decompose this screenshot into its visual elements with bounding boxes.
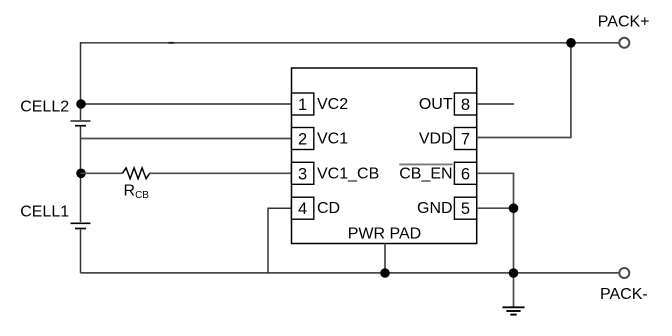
ground symbol: [503, 307, 525, 314]
svg-text:CD: CD: [317, 200, 340, 217]
junction node resistor RCB: [76, 169, 86, 179]
svg-text:CELL2: CELL2: [20, 99, 69, 116]
wire PWR PAD to bottom rail: [384, 244, 386, 274]
wire pin6 CB_EN elbow down: [477, 173, 514, 307]
wire pin1 VC2 to CELL2 node: [81, 103, 292, 105]
battery CELL1 short plate: [75, 228, 86, 230]
terminal PACK+: [619, 38, 629, 48]
wire top rail from left rail to PACK+: [81, 42, 619, 44]
wire bottom rail from left rail to PACK-: [81, 272, 619, 274]
svg-text:VC1: VC1: [317, 131, 348, 148]
svg-text:2: 2: [298, 131, 307, 149]
pin 2 box: [292, 128, 314, 150]
svg-text:6: 6: [461, 165, 470, 183]
wire pin4 CD down to bottom rail: [268, 208, 292, 273]
svg-text:VC2: VC2: [317, 96, 348, 113]
svg-text:PACK-: PACK-: [600, 286, 648, 303]
svg-text:VDD: VDD: [419, 131, 453, 148]
resistor RCB zigzag: [123, 168, 150, 179]
junction node VDD / PACK+: [566, 38, 576, 48]
svg-text:CB_EN: CB_EN: [399, 165, 452, 182]
wire left rail lower segment (CELL1 to bottom rail): [80, 230, 82, 274]
pin 3 box: [292, 162, 314, 184]
svg-text:VC1_CB: VC1_CB: [317, 165, 379, 182]
svg-text:OUT: OUT: [419, 96, 453, 113]
pin 5 box: [454, 197, 476, 219]
svg-text:4: 4: [298, 200, 307, 218]
wire pin2 VC1 to mid-cell rail: [81, 138, 292, 140]
pin 8 box: [454, 93, 476, 115]
wire RCB left lead: [81, 172, 123, 174]
wire pin8 OUT stub: [477, 103, 514, 105]
svg-text:PWR PAD: PWR PAD: [348, 226, 421, 243]
svg-text:5: 5: [461, 200, 470, 218]
terminal PACK-: [619, 268, 629, 278]
pin 1 box: [292, 93, 314, 115]
wire RCB right lead to pin 3: [150, 172, 292, 174]
battery CELL1 long plate: [71, 222, 91, 224]
wire left rail middle segment (CELL2 to CELL1): [80, 127, 82, 223]
overline bar of CB_EN: [399, 163, 452, 165]
pin 6 box: [454, 162, 476, 184]
junction node PWR PAD / bottom rail: [380, 268, 390, 278]
wire pin5 GND to vertical: [477, 207, 514, 209]
svg-text:GND: GND: [417, 200, 453, 217]
svg-text:PACK+: PACK+: [598, 14, 650, 31]
junction node bottom rail / ground: [509, 268, 519, 278]
wire pin7 VDD to PACK+ rail: [477, 43, 571, 138]
svg-text:CELL1: CELL1: [20, 204, 69, 221]
svg-text:1: 1: [298, 96, 307, 114]
wire top rail overlap joint: [169, 42, 175, 44]
pin 4 box: [292, 197, 314, 219]
svg-text:3: 3: [298, 165, 307, 183]
svg-text:8: 8: [461, 96, 470, 114]
battery CELL2 short plate: [75, 125, 86, 127]
battery CELL2 long plate: [71, 120, 91, 122]
op-amp/IC body U1: [292, 68, 477, 244]
junction node GND / CB_EN: [509, 203, 519, 213]
junction node CELL2/VC2: [76, 99, 86, 109]
svg-text:7: 7: [461, 131, 470, 149]
pin 7 box: [454, 128, 476, 150]
wire left rail upper segment (top corner to CELL2 plate): [80, 42, 82, 120]
